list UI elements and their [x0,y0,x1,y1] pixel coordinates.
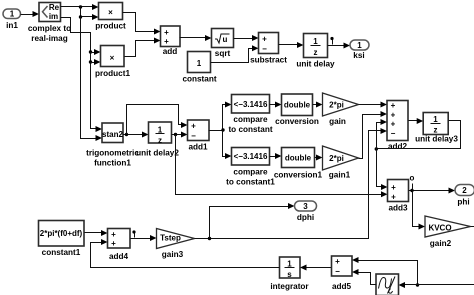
wire gain1 to add2 input 2 [359,111,388,159]
wire gain3 to add2 minus input [195,128,388,239]
svg-text:<−3.1416: <−3.1416 [234,152,268,161]
svg-text:−: − [262,45,267,54]
input port in1 [3,9,21,30]
svg-text:add: add [163,47,178,56]
svg-text:complex to: complex to [28,24,71,33]
wire unit delay2 down to add3 input 2 [176,135,388,198]
svg-text:im: im [49,12,58,21]
svg-text:2*pi: 2*pi [329,101,344,110]
svg-text:constant1: constant1 [42,248,81,257]
svg-text:gain3: gain3 [162,250,184,259]
block compare to constant1 [226,148,275,187]
block compare to constant [228,95,272,135]
output port phi [455,185,474,207]
wire add1 to compare blocks [209,102,232,131]
svg-text:unit delay3: unit delay3 [415,135,458,144]
svg-text:gain: gain [329,117,346,126]
output port ksi [350,40,369,60]
wire compare1 to conversion1 [270,153,282,159]
svg-text:add3: add3 [388,204,408,213]
junction dphi branch [208,237,211,240]
svg-text:to constant1: to constant1 [226,178,275,187]
gain block gain2 KVCO [425,216,471,248]
branch tick on add4 output [132,230,135,237]
svg-text:×: × [110,54,115,63]
svg-text:product1: product1 [95,69,130,78]
output port dphi [295,201,317,222]
wire Re to product input 1 [61,4,99,10]
svg-text:add5: add5 [332,282,352,291]
wire add1 to compare to constant1 [223,131,232,160]
block add4 [108,229,131,262]
svg-text:constant: constant [182,75,216,84]
svg-text:−: − [391,129,396,138]
branch tick on ksi wire [330,37,333,45]
svg-text:add1: add1 [188,143,208,152]
svg-text:+: + [391,183,396,192]
svg-text:+: + [391,193,396,202]
svg-text:+: + [335,257,340,266]
svg-text:+: + [262,35,267,44]
block product [95,3,126,31]
block integrator [270,257,309,291]
svg-text:2*pi*(f0+df): 2*pi*(f0+df) [40,229,83,238]
gain block gain 2*pi [323,93,359,126]
block add [161,26,181,56]
wire integrator feedback to add4 [91,239,280,268]
svg-text:1: 1 [313,37,318,46]
gain block gain1 2*pi [323,146,359,180]
wire feedback down to add3 input 1 [377,149,388,191]
block conversion [275,94,319,126]
svg-text:trigonometric: trigonometric [86,149,139,158]
svg-text:real-imag: real-imag [31,34,67,43]
svg-text:1: 1 [357,41,362,50]
node o label on add3 output [410,174,415,190]
svg-text:s: s [287,270,292,279]
block constant1 [39,221,85,258]
svg-text:3: 3 [303,202,308,211]
svg-text:substract: substract [250,56,287,65]
wire add5 to integrator [300,265,332,271]
wire constant to substract [211,45,259,62]
wire Re down to atan2 input 2 [81,17,103,142]
wire branch up to dphi [210,203,295,239]
gain block gain3 Tstep [157,229,195,260]
wire product1 to add [125,38,161,57]
wire atan2 bypass to add1 plus [127,105,188,135]
wire feedback into add5 plus [352,257,418,285]
svg-text:−: − [191,132,196,141]
wire into waveform block [399,282,418,288]
svg-text:dphi: dphi [297,213,314,222]
junction im to product1 input 1 [89,49,101,55]
svg-text:compare: compare [233,168,268,177]
wire constant1 to add4 [85,230,108,236]
wire waveform block to add5 minus [352,269,377,285]
svg-text:+: + [191,122,196,131]
svg-text:u: u [223,35,228,44]
svg-text:add2: add2 [388,142,408,151]
junction unit delay3 feedback [375,147,378,150]
block substract [250,33,287,65]
block add2 [387,101,408,152]
svg-text:2: 2 [462,186,467,195]
wire bottom feedback from edge [418,284,474,286]
svg-text:double: double [284,101,311,110]
svg-text:+: + [164,37,169,46]
junction add1 output [221,128,224,131]
wire add3 down to KVCO [413,191,426,230]
wire unit delay3 feedback [377,121,461,149]
wire gain to add2 input 1 [359,102,388,108]
wire im down to product1 and atan2 [61,18,103,133]
junction Re branch [79,5,82,8]
wire add to sqrt [180,35,212,41]
svg-text:Tstep: Tstep [160,234,181,243]
svg-text:z: z [434,126,438,135]
junction add3 output [410,189,413,192]
wire in1 to complex block [21,11,40,17]
svg-text:1: 1 [197,59,202,68]
block waveform zero-order hold [376,274,399,295]
wire conversion to gain [313,102,323,108]
wire KVCO output to edge [471,226,474,228]
block unit delay [296,34,335,69]
block constant [182,52,216,84]
block trigonometric function1 atan2 [86,123,139,168]
svg-text:stan2: stan2 [102,130,123,139]
svg-text:z: z [158,136,162,145]
svg-text:+: + [391,101,396,110]
wire unit delay to ksi [328,43,351,49]
junction bottom feedback [416,283,419,286]
junction unit delay2 output [174,133,177,136]
junction im to product1 input 2 [89,59,101,65]
svg-text:unit delay: unit delay [296,60,335,69]
svg-text:conversion: conversion [275,117,319,126]
svg-text:phi: phi [457,198,469,207]
block product1 [95,46,130,79]
svg-text:conversion1: conversion1 [274,171,323,180]
svg-text:KVCO: KVCO [428,224,451,233]
block unit delay2 [136,122,179,158]
wire substract to unit delay [279,42,304,48]
svg-text:add4: add4 [109,252,129,261]
svg-text:gain2: gain2 [430,239,452,248]
svg-text:compare: compare [233,115,268,124]
wire conversion1 to gain1 [315,155,323,161]
svg-text:+: + [164,28,169,37]
svg-text:+: + [111,230,116,239]
block add5 [332,256,353,291]
block sqrt [212,29,234,59]
svg-text:×: × [108,8,113,17]
wire unit delay2 to add1 minus [172,132,188,138]
block conversion1 [274,148,323,180]
svg-text:gain1: gain1 [329,171,351,180]
svg-text:ksi: ksi [353,51,364,60]
block add1 [188,120,210,152]
svg-text:z: z [314,48,318,57]
svg-text:integrator: integrator [270,282,309,291]
svg-text:to constant: to constant [228,125,272,134]
wire compare to conversion [270,102,282,108]
svg-text:unit delay2: unit delay2 [136,149,179,158]
svg-text:product: product [95,22,126,31]
svg-text:double: double [285,154,312,163]
wire product to add [123,13,161,35]
svg-text:function1: function1 [94,159,131,168]
block add3 [388,180,409,213]
svg-text:+: + [391,120,396,129]
wire sqrt to substract [234,35,259,41]
wire Re down to product input 2 [81,7,99,21]
svg-text:1: 1 [433,115,438,124]
junction Re lower branch [79,15,82,18]
junction atan2 output [125,133,128,136]
svg-text:+: + [111,239,116,248]
svg-text:1: 1 [10,10,15,19]
wire add4 to gain3 [131,235,157,241]
wire add3 to phi [409,188,456,194]
svg-text:o: o [410,174,415,183]
block unit delay3 [415,113,458,144]
wire add2 to unit delay3 [409,118,424,124]
svg-text:in1: in1 [6,21,18,30]
svg-text:Re: Re [49,3,60,12]
svg-text:2*pi: 2*pi [329,154,344,163]
svg-text:sqrt: sqrt [215,49,231,58]
wire feedback up to add2 input 3 [377,119,388,149]
svg-text:+: + [391,111,396,120]
block U complex to real-imag [28,3,71,44]
wire atan2 to unit delay2 [123,132,149,138]
svg-text:−: − [335,267,340,276]
svg-text:<−3.1416: <−3.1416 [234,100,268,109]
